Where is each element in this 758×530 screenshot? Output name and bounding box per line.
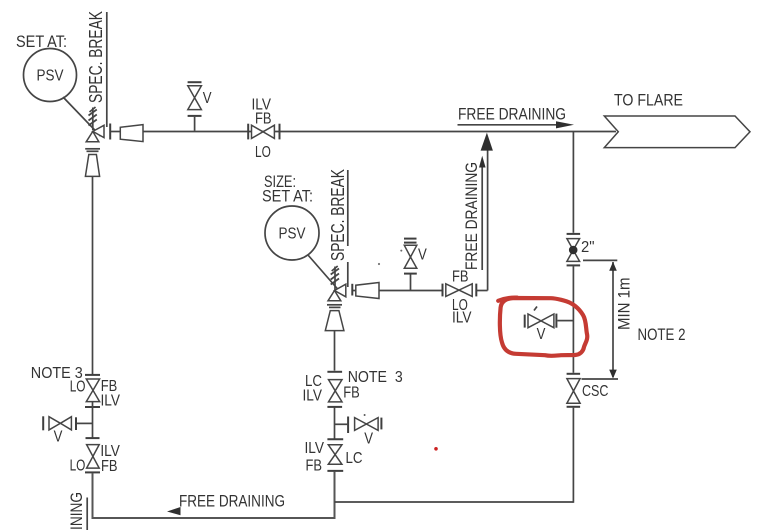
flange cap (middle leg lower valve bottom) <box>327 470 343 472</box>
wire stub to riser <box>476 290 487 292</box>
label FB (top gate valve) <box>255 111 272 128</box>
wire PSV2 header <box>379 290 442 292</box>
label LO (left upper valve) <box>70 379 86 396</box>
flange pair below PSV1 <box>85 149 100 152</box>
svg-text:V: V <box>418 247 427 264</box>
label V (circled valve) <box>537 326 546 343</box>
reducer below PSV2 (vertical) <box>325 311 344 331</box>
flange cap (left lower valve top) <box>86 437 100 439</box>
label FB (middle upper valve) <box>343 384 360 401</box>
gate valve (left leg upper, LO/FB/ILV) <box>86 379 99 402</box>
reducer (PSV2 outlet, horizontal) <box>356 283 379 299</box>
svg-text:PSV: PSV <box>279 226 307 243</box>
svg-text:FB: FB <box>101 458 118 475</box>
wire PSV2 outlet to reducer <box>353 290 356 292</box>
flange cap (CSC valve bottom) <box>567 406 581 408</box>
svg-text:ILV: ILV <box>303 388 323 405</box>
label V (PSV2 vent) <box>418 247 427 264</box>
PSV U2 (pressure safety valve bubble) <box>265 206 319 260</box>
label TO FLARE <box>614 92 683 110</box>
svg-text:FREE DRAINING: FREE DRAINING <box>458 105 566 123</box>
wire top vent stub <box>194 117 196 131</box>
label FREE DRAINING (vertical, riser) <box>463 162 481 270</box>
svg-text:NOTE 2: NOTE 2 <box>638 326 686 344</box>
svg-text:FREE DRAINING: FREE DRAINING <box>463 162 481 270</box>
relief valve PSV2 (angle valve) <box>328 284 346 301</box>
wire bottom header (left to middle) <box>93 517 335 519</box>
leader line PSV1 to valve <box>63 97 101 136</box>
flange PSV2 outlet <box>351 284 353 296</box>
wire PSV1 outlet to reducer <box>111 131 121 133</box>
svg-text:2": 2" <box>581 239 595 256</box>
svg-text:TO FLARE: TO FLARE <box>614 92 683 110</box>
wire stub to left bleed valve <box>77 422 93 424</box>
PSV U1 (pressure safety valve bubble) <box>24 49 77 102</box>
speck dot 2 <box>400 250 402 252</box>
red dot speck <box>434 447 438 451</box>
svg-text:V: V <box>54 429 63 446</box>
bleed valve V (left leg) <box>43 416 76 430</box>
flange cap (CSC valve top) <box>567 373 581 375</box>
dimension line MIN 1m <box>609 262 617 379</box>
label ILV (middle upper valve) <box>303 388 323 405</box>
wire stub to circled valve <box>558 320 574 322</box>
flange cap (middle leg upper valve bottom) <box>327 406 342 408</box>
svg-text:FB: FB <box>306 458 323 475</box>
label V (middle bleed valve) <box>364 430 373 447</box>
flange cap (2in valve bottom) <box>567 264 581 266</box>
label LC (middle upper valve) <box>305 373 322 390</box>
label FB (left lower valve) <box>101 458 118 475</box>
label V (left bleed valve) <box>54 429 63 446</box>
svg-text:SET AT:: SET AT: <box>16 33 67 51</box>
flange cap (left upper valve top) <box>85 374 100 376</box>
label FB (PSV2 gate valve) <box>452 269 469 286</box>
label SET AT: (PSV2) <box>262 188 313 206</box>
arrow FREE DRAINING (top, right-pointing) <box>458 121 575 128</box>
label LO (left lower valve) <box>70 458 86 475</box>
dimension tick top (MIN 1m) <box>583 259 617 261</box>
svg-text:V: V <box>203 90 212 107</box>
flange PSV1 outlet <box>109 124 111 140</box>
vent valve V (PSV2 header) double cap <box>404 239 417 243</box>
label LO (PSV2 gate valve) <box>452 297 468 314</box>
arrow flow up (riser, solid) <box>481 133 493 151</box>
label FB (left upper valve) <box>101 378 118 395</box>
label ILV (middle lower valve) <box>305 440 325 457</box>
flange cap (middle leg upper valve top) <box>327 371 342 373</box>
gate valve (PSV2 header FB/LO/ILV) <box>443 284 477 297</box>
svg-text:FREE DRAINING: FREE DRAINING <box>179 493 285 511</box>
arrow FREE DRAINING (bottom, left-pointing) <box>167 507 181 515</box>
wire right leg middle <box>572 266 574 373</box>
label FB (middle lower valve) <box>306 458 323 475</box>
svg-text:V: V <box>537 326 546 343</box>
label LO (top gate valve) <box>255 144 271 161</box>
bleed valve V (circled) <box>525 314 557 328</box>
svg-text:ILV: ILV <box>305 440 325 457</box>
svg-text:LO: LO <box>255 144 271 161</box>
label NOTE 3 (left) <box>31 365 83 382</box>
off-page connector TO FLARE <box>604 116 750 148</box>
svg-text:FB: FB <box>343 384 360 401</box>
valve CSC <box>567 379 580 404</box>
reducer (PSV1 outlet, horizontal) <box>120 125 143 142</box>
svg-text:LC: LC <box>346 450 363 467</box>
speck dot <box>378 263 380 265</box>
label LC (middle lower valve) <box>346 450 363 467</box>
svg-text:SPEC. BREAK: SPEC. BREAK <box>328 169 348 261</box>
spec break line (PSV1) <box>106 12 108 127</box>
flange (top vent stub) <box>188 115 202 117</box>
dimension tick bottom (MIN 1m) <box>582 378 619 380</box>
vent valve V (PSV2 header) <box>404 245 417 268</box>
label NOTE 3 (middle) <box>348 369 403 386</box>
svg-text:LO: LO <box>70 458 86 475</box>
svg-text:FB: FB <box>452 269 469 286</box>
label ILV (PSV2 gate valve) <box>452 310 472 327</box>
label SET AT: (PSV1) <box>16 33 67 51</box>
tick mark (circled valve) <box>534 307 537 311</box>
gate valve (top header ILV/FB/LO) <box>248 124 279 140</box>
red highlight circle (hand-drawn) <box>498 298 587 356</box>
vent valve V (top header) <box>188 86 202 110</box>
valve 2in (globe with plug) <box>567 239 580 262</box>
svg-text:FB: FB <box>255 111 272 128</box>
svg-text:SPEC. BREAK: SPEC. BREAK <box>86 11 106 103</box>
relief valve PSV1 (angle valve) <box>86 125 104 142</box>
node branch to flare header <box>572 132 574 233</box>
svg-text:LO: LO <box>70 379 86 396</box>
arrow FREE DRAINING (vertical annotation) <box>479 156 486 270</box>
wire right leg lower (CSC to bottom) <box>572 408 574 503</box>
svg-text:SET AT:: SET AT: <box>262 188 313 206</box>
flange (PSV2 vent stub) <box>404 273 417 275</box>
gate valve (middle leg upper, LC/ILV/FB) <box>329 380 343 402</box>
flange pair below PSV2 <box>327 305 342 308</box>
wire PSV2 vent stub <box>410 275 412 291</box>
wire left leg to bottom corner <box>92 473 94 519</box>
bleed valve V (middle leg) <box>348 417 381 434</box>
svg-text:FREE DRAINING: FREE DRAINING <box>68 492 86 530</box>
label FREE DRAINING (bottom) <box>179 493 285 511</box>
label CSC <box>582 383 609 400</box>
flange cap (middle leg lower valve top) <box>327 438 343 440</box>
wire middle leg between valves <box>334 408 336 439</box>
label SPEC. BREAK (PSV1) <box>86 11 106 103</box>
svg-text:MIN 1m: MIN 1m <box>616 278 634 331</box>
label FREE DRAINING (top) <box>458 105 566 123</box>
label ILV (left upper valve) <box>101 393 121 410</box>
label SIZE: (PSV2) <box>264 173 296 191</box>
label FREE DRAINING (vertical, bottom-left) <box>68 492 86 530</box>
reducer below PSV1 (vertical) <box>85 155 99 177</box>
label ILV (top gate valve) <box>252 97 272 114</box>
tick mark (middle bleed valve) <box>364 414 366 416</box>
wire bottom collection (middle to right riser) <box>335 501 574 503</box>
wire stub to middle bleed valve <box>335 423 348 425</box>
wire middle leg to bottom <box>334 472 336 520</box>
label V (top vent) <box>203 90 212 107</box>
gate valve (middle leg lower, ILV/FB/LC) <box>328 445 342 465</box>
vent valve V (top header) cap <box>188 81 202 83</box>
spec break line (PSV2) <box>347 170 349 287</box>
flange cap (2in valve top) <box>567 233 581 235</box>
leader line PSV2 to valve <box>308 255 342 294</box>
svg-text:ILV: ILV <box>101 393 121 410</box>
label 2" <box>581 239 595 256</box>
wire main header (top) <box>143 131 616 133</box>
flange cap (left lower valve bottom) <box>85 471 100 473</box>
label MIN 1m <box>616 278 634 331</box>
spring (PSV2 relief valve) <box>331 266 339 290</box>
label ILV (left lower valve) <box>100 443 120 460</box>
arrow line FREE DRAINING (bottom-left vertical) <box>86 498 88 530</box>
svg-text:PSV: PSV <box>37 68 65 85</box>
svg-text:V: V <box>364 430 373 447</box>
gate valve (left leg lower, ILV/LO/FB) <box>87 445 100 469</box>
flange cap (left upper valve bottom) <box>85 406 100 408</box>
spring (PSV1 relief valve) <box>89 107 97 130</box>
wire middle leg (below PSV2 reducer) <box>334 331 336 371</box>
wire left leg between valves <box>92 402 94 438</box>
wire left leg (below PSV1 reducer) <box>92 177 94 376</box>
svg-text:CSC: CSC <box>582 383 609 400</box>
svg-text:ILV: ILV <box>452 310 472 327</box>
label NOTE 2 <box>638 326 686 344</box>
wire riser to flare header <box>487 150 489 291</box>
label SPEC. BREAK (PSV2) <box>328 169 348 261</box>
